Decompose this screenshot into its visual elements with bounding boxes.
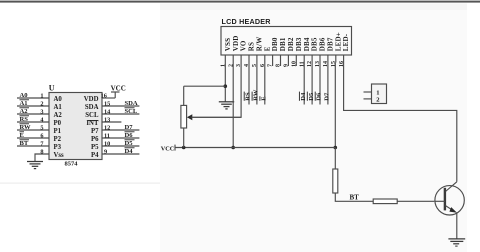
svg-text:SCL: SCL <box>125 108 138 115</box>
transistor Q NPN <box>434 182 464 215</box>
svg-text:A1: A1 <box>20 100 28 107</box>
svg-text:U: U <box>49 84 55 93</box>
wire U pin 8 Vss to ground <box>35 148 49 161</box>
svg-text:12: 12 <box>104 124 110 131</box>
wire LCD pin5 net RW <box>252 63 260 105</box>
svg-text:1: 1 <box>40 92 43 99</box>
svg-text:14: 14 <box>104 108 111 115</box>
svg-text:SDA: SDA <box>85 104 99 111</box>
wire emitter to ground <box>456 213 458 239</box>
ground symbol below transistor <box>448 239 465 246</box>
wire LCD pin9 DB2 stub <box>287 63 289 67</box>
wire LCD pin14 net D7 <box>324 63 331 105</box>
svg-text:DB2: DB2 <box>287 37 295 51</box>
svg-text:DB1: DB1 <box>279 37 287 51</box>
svg-text:SCL: SCL <box>85 112 99 119</box>
svg-text:D6: D6 <box>316 92 323 101</box>
wire U pin 11 net D6 <box>102 132 139 140</box>
svg-text:5: 5 <box>40 124 43 131</box>
svg-text:E: E <box>20 132 25 139</box>
junction node LED+ / VCC rail / pullup <box>334 146 338 150</box>
wire LCD pin3 VO to pot wiper <box>192 63 242 118</box>
wire U pin 9 net D4 <box>102 148 139 156</box>
svg-text:6: 6 <box>40 132 43 139</box>
ground symbol below LCD pin1 <box>219 102 234 109</box>
top border line <box>0 1 480 3</box>
toolbar remnant band <box>160 3 467 10</box>
svg-text:P0: P0 <box>54 120 62 127</box>
svg-text:P2: P2 <box>54 136 62 143</box>
svg-text:3: 3 <box>40 108 43 115</box>
wire LCD pin8 DB1 stub <box>280 63 282 67</box>
svg-text:RS: RS <box>245 92 252 101</box>
svg-text:16: 16 <box>101 92 107 99</box>
wire net A0 to U pin 1 <box>17 92 49 99</box>
svg-text:7: 7 <box>40 140 43 147</box>
wire LCD pin2 VDD down to VCC rail <box>232 63 234 148</box>
svg-text:DB0: DB0 <box>271 37 279 51</box>
wire U pin 15 net SDA <box>102 100 139 107</box>
svg-text:Vss: Vss <box>54 152 65 159</box>
ground symbol below U <box>27 162 43 169</box>
svg-text:VDD: VDD <box>232 35 240 51</box>
wire U pin 12 net D7 <box>102 124 139 131</box>
junction node pot top / VSS <box>224 84 228 88</box>
wire LCD pin16 LED- to transistor collector <box>344 63 457 182</box>
svg-text:RS: RS <box>20 116 29 123</box>
svg-text:INT: INT <box>86 120 99 127</box>
svg-text:VDD: VDD <box>84 96 99 103</box>
wire U pin 10 net D5 <box>102 140 139 148</box>
svg-text:D4: D4 <box>125 148 134 155</box>
svg-text:15: 15 <box>331 61 337 67</box>
svg-text:15: 15 <box>104 100 110 107</box>
svg-text:VO: VO <box>240 40 248 51</box>
svg-text:P1: P1 <box>54 128 62 135</box>
wire LCD pin13 net D6 <box>315 63 323 105</box>
svg-text:BT: BT <box>20 140 29 147</box>
LCD header pin name labels <box>224 32 350 51</box>
svg-text:E: E <box>260 96 267 101</box>
svg-text:A2: A2 <box>20 108 29 115</box>
svg-text:RW: RW <box>253 89 260 101</box>
svg-text:P7: P7 <box>91 128 99 135</box>
svg-text:VCC: VCC <box>161 145 175 152</box>
connector J 2-pin <box>364 84 387 104</box>
svg-text:R/W: R/W <box>256 37 264 52</box>
svg-text:LED-: LED- <box>342 33 350 51</box>
svg-text:DB7: DB7 <box>327 37 335 51</box>
svg-text:A0: A0 <box>20 92 29 99</box>
wire net A2 to U pin 3 <box>17 108 49 116</box>
junction node VDD / VCC rail <box>231 146 235 150</box>
svg-text:A2: A2 <box>54 112 63 119</box>
svg-text:D6: D6 <box>125 132 134 139</box>
svg-text:10: 10 <box>104 140 110 147</box>
U pin name labels <box>54 96 100 159</box>
wire LCD pin10 DB3 stub <box>295 63 297 67</box>
LCD header pin stubs and numbers <box>220 55 344 67</box>
VCC rail <box>161 145 336 153</box>
svg-text:P4: P4 <box>91 152 99 159</box>
junction node pot bottom / VCC rail <box>182 146 186 150</box>
svg-text:A1: A1 <box>54 104 63 111</box>
wire net A1 to U pin 2 <box>17 100 49 108</box>
IC U 8574 body <box>49 84 102 168</box>
svg-text:D5: D5 <box>308 92 315 101</box>
wire net RW to U pin 5 <box>17 124 49 132</box>
svg-text:8: 8 <box>40 148 43 155</box>
wire U pin 13 <box>102 116 121 123</box>
svg-text:8574: 8574 <box>65 160 79 167</box>
svg-text:9: 9 <box>104 148 107 155</box>
svg-text:E: E <box>263 46 271 51</box>
wire LCD pin4 net RS <box>244 63 252 105</box>
svg-text:RS: RS <box>248 42 256 51</box>
wire LCD pin7 DB0 stub <box>272 63 274 67</box>
wire net BT to U pin 7 <box>17 140 49 148</box>
resistor base series <box>373 199 434 204</box>
VCC power symbol at U pin 16 <box>101 84 126 99</box>
wire U pin 14 net SCL <box>102 108 139 116</box>
svg-text:VSS: VSS <box>224 38 232 51</box>
svg-text:D7: D7 <box>125 124 134 131</box>
svg-text:D4: D4 <box>300 92 307 101</box>
wire LCD pin12 net D5 <box>307 63 315 105</box>
svg-text:13: 13 <box>104 116 110 123</box>
wire LCD pin6 net E <box>260 63 268 105</box>
resistor pullup VCC to BT <box>333 148 373 202</box>
svg-text:2: 2 <box>40 100 43 107</box>
wire net E to U pin 6 <box>17 132 49 140</box>
wire LCD pin15 LED+ down to VCC rail <box>334 63 336 148</box>
svg-text:BT: BT <box>350 194 360 202</box>
svg-text:VCC: VCC <box>111 84 126 92</box>
svg-text:RW: RW <box>20 124 32 131</box>
wire net RS to U pin 4 <box>17 116 49 124</box>
svg-text:DB5: DB5 <box>311 37 319 51</box>
svg-text:DB6: DB6 <box>319 37 327 51</box>
svg-text:DB3: DB3 <box>295 37 303 51</box>
canvas light grey field <box>160 3 467 252</box>
svg-text:P5: P5 <box>91 144 99 151</box>
svg-text:P6: P6 <box>91 136 99 143</box>
svg-text:LCD HEADER: LCD HEADER <box>222 17 272 26</box>
svg-text:11: 11 <box>104 132 110 139</box>
potentiometer contrast <box>181 86 241 147</box>
svg-text:A0: A0 <box>54 96 63 103</box>
svg-text:DB4: DB4 <box>303 37 311 51</box>
faint separator line <box>0 183 160 184</box>
wire LCD pin11 net D4 <box>299 63 307 105</box>
svg-text:P3: P3 <box>54 144 62 151</box>
svg-text:D5: D5 <box>125 140 134 147</box>
svg-text:LED+: LED+ <box>334 32 342 51</box>
wire LCD pin1 VSS down to ground <box>224 63 226 102</box>
svg-text:D7: D7 <box>324 92 331 101</box>
LCD header body <box>221 27 352 56</box>
svg-text:SDA: SDA <box>125 100 138 107</box>
